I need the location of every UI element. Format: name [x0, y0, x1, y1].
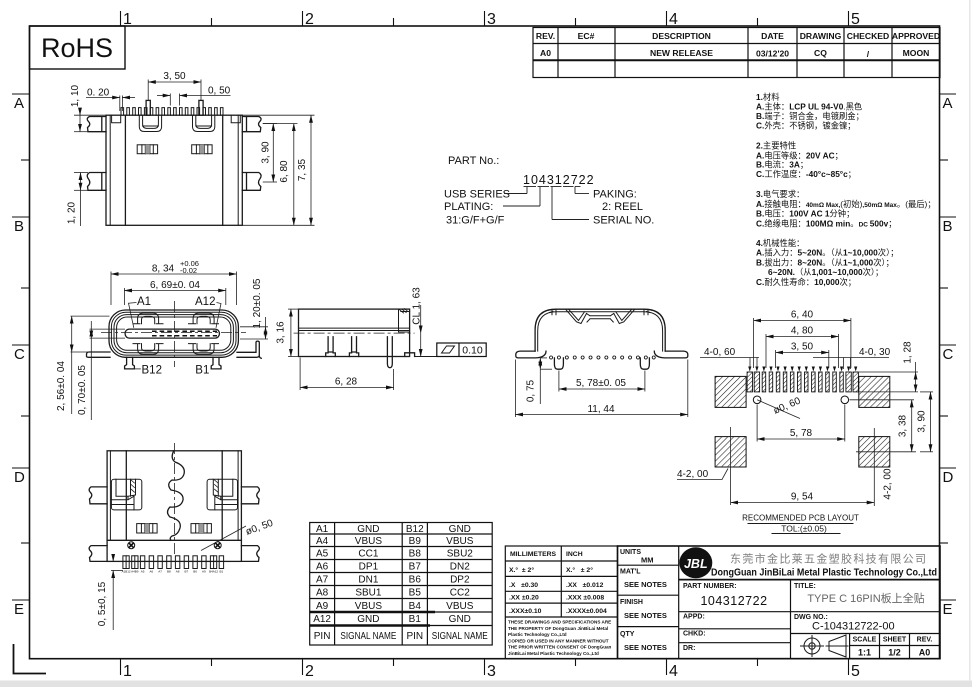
zone numbers top	[123, 11, 860, 28]
svg-text:COPIED OR USED IN ANY MANNER W: COPIED OR USED IN ANY MANNER WITHOUT	[508, 638, 609, 643]
svg-text:B12: B12	[406, 524, 424, 535]
top view vent slot left	[137, 145, 157, 154]
svg-text:.XXX ±0.008: .XXX ±0.008	[566, 595, 604, 602]
revision table text	[536, 31, 940, 59]
pad arrows top	[748, 367, 857, 372]
svg-text:REV.: REV.	[536, 31, 555, 41]
svg-text:1.材料: 1.材料	[756, 92, 780, 102]
svg-text:A7: A7	[158, 570, 162, 574]
corner crop mark bottom-left	[14, 644, 47, 674]
dim 6.80 right	[242, 124, 297, 226]
dim 3.16	[288, 309, 299, 356]
locating holes 0.60	[753, 396, 761, 404]
svg-text:A6: A6	[149, 570, 153, 574]
svg-text:THE PROPERTY OF DongGuan JinBi: THE PROPERTY OF DongGuan JinBiLai Metal	[508, 626, 608, 631]
svg-text:VBUS: VBUS	[446, 536, 474, 547]
front view shell capsule outlines	[109, 310, 238, 357]
part number legend	[444, 155, 654, 227]
svg-text:TYPE C 16PIN板上全贴: TYPE C 16PIN板上全贴	[807, 591, 924, 605]
svg-text:3, 90: 3, 90	[261, 141, 272, 164]
top view solder tab upper-left	[87, 117, 106, 132]
svg-text:C.工作温度：-40°c~85°c；: C.工作温度：-40°c~85°c；	[756, 169, 856, 179]
dim 2.56 left	[71, 316, 111, 414]
svg-text:东莞市金比莱五金塑胶科技有限公司: 东莞市金比莱五金塑胶科技有限公司	[730, 552, 926, 566]
svg-text:GND: GND	[449, 524, 471, 535]
svg-text:GND: GND	[357, 614, 379, 625]
svg-text:C.绝缘电阻：100MΩ min。DC 500v；: C.绝缘电阻：100MΩ min。DC 500v；	[756, 218, 897, 228]
svg-text:B6: B6	[193, 570, 197, 574]
legs	[326, 337, 336, 357]
svg-text:E: E	[943, 601, 953, 618]
top view shell body	[106, 115, 242, 225]
center line	[294, 332, 415, 334]
svg-text:6, 69±0. 04: 6, 69±0. 04	[150, 280, 200, 291]
svg-text:GND: GND	[357, 524, 379, 535]
corner pads 2.00 squares	[715, 376, 746, 407]
svg-text:A5: A5	[141, 570, 145, 574]
svg-text:2: REEL: 2: REEL	[602, 201, 643, 213]
top view vent slot right	[192, 145, 212, 154]
right wing	[237, 341, 261, 358]
part number leader lines	[503, 187, 589, 220]
svg-text:SEE NOTES: SEE NOTES	[624, 643, 667, 652]
svg-text:1, 10: 1, 10	[70, 84, 81, 107]
side view body	[299, 309, 410, 356]
technical notes (Chinese)	[756, 92, 936, 287]
svg-text:B.电压：100V AC 1分钟；: B.电压：100V AC 1分钟；	[756, 209, 854, 219]
center break squiggle	[168, 451, 185, 541]
svg-text:QTY: QTY	[620, 631, 635, 638]
svg-text:5: 5	[851, 663, 860, 680]
svg-text:1: 1	[123, 663, 132, 680]
latch contact upper-left	[133, 313, 163, 324]
right wing	[654, 351, 688, 358]
svg-text:THESE DRAWINGS AND SPECIFICATI: THESE DRAWINGS AND SPECIFICATIONS ARE	[508, 620, 611, 625]
svg-text:EC#: EC#	[578, 31, 595, 41]
EMI tab fold right	[399, 309, 410, 332]
tolerance table	[505, 546, 617, 659]
svg-text:D: D	[943, 469, 954, 486]
svg-text:104312722: 104312722	[523, 173, 595, 187]
svg-text:5, 78: 5, 78	[790, 428, 813, 439]
svg-text:DongGuan JinBiLai Metal Plasti: DongGuan JinBiLai Metal Plastic Technolo…	[711, 567, 937, 579]
svg-text:A9: A9	[316, 601, 329, 612]
svg-text:INCH: INCH	[566, 551, 583, 558]
svg-text:2: 2	[305, 11, 314, 28]
svg-text:6, 40: 6, 40	[791, 310, 814, 321]
svg-text:DR:: DR:	[683, 645, 695, 652]
svg-text:1, 20±0. 05: 1, 20±0. 05	[252, 278, 263, 328]
svg-text:B7: B7	[409, 562, 422, 573]
svg-text:USB SERIES: USB SERIES	[444, 189, 510, 201]
svg-text:RECOMMENDED PCB LAYOUT: RECOMMENDED PCB LAYOUT	[742, 514, 859, 523]
dim 6.40	[754, 318, 851, 368]
top view solder tab lower-right	[242, 173, 261, 191]
top view retention clip left	[139, 115, 161, 131]
dim 7.35 right	[242, 115, 314, 225]
svg-text:X.° ± 2°: X.° ± 2°	[509, 566, 534, 574]
svg-text:5, 78±0. 05: 5, 78±0. 05	[576, 378, 626, 389]
svg-text:5: 5	[851, 11, 860, 28]
svg-text:A0: A0	[540, 48, 551, 58]
top view latch pins	[146, 100, 150, 115]
svg-text:A6: A6	[316, 562, 329, 573]
dim 8.34	[111, 272, 237, 306]
dim 1.28	[858, 362, 918, 392]
svg-text:2: 2	[305, 663, 314, 680]
svg-text:CC1: CC1	[358, 549, 378, 560]
dim 6.28	[300, 358, 394, 391]
left wing	[516, 351, 546, 358]
svg-text:4.机械性能：: 4.机械性能：	[756, 238, 804, 248]
third angle projection symbol	[801, 635, 849, 657]
rear view	[515, 309, 687, 417]
svg-text:A.插入力：5~20N。（从1~10,000次）；: A.插入力：5~20N。（从1~10,000次）；	[756, 248, 899, 258]
svg-text:DP1: DP1	[359, 562, 379, 573]
svg-text:6, 28: 6, 28	[335, 377, 358, 388]
zone ticks top	[121, 11, 849, 26]
gray page bottom strip	[0, 681, 972, 687]
svg-text:SHEET: SHEET	[883, 637, 907, 644]
dim 6.69	[124, 288, 225, 305]
svg-text:0.10: 0.10	[462, 345, 483, 357]
svg-text:B: B	[943, 218, 953, 235]
svg-text:4, 80: 4, 80	[791, 326, 814, 337]
dim 3.38	[850, 400, 917, 452]
svg-text:4: 4	[669, 11, 678, 28]
svg-text:3, 16: 3, 16	[276, 321, 287, 344]
svg-text:A1: A1	[137, 296, 151, 308]
svg-text:B6: B6	[409, 575, 422, 586]
flatness tolerance frame	[437, 343, 486, 357]
svg-text:A9: A9	[202, 570, 206, 574]
svg-text:3, 38: 3, 38	[898, 414, 909, 437]
leader and label dia 0.50	[201, 526, 246, 551]
zone letters right	[943, 95, 954, 618]
clip block right	[207, 479, 237, 510]
svg-text:X.° ± 2°: X.° ± 2°	[566, 566, 593, 574]
svg-text:MM: MM	[641, 556, 654, 565]
svg-text:1, 28: 1, 28	[903, 341, 914, 364]
svg-text:PAKING:: PAKING:	[593, 189, 637, 201]
svg-text:DATE: DATE	[761, 31, 784, 41]
svg-text:0, 50: 0, 50	[208, 86, 231, 97]
svg-text:A.主体：LCP UL 94-V0.黑色: A.主体：LCP UL 94-V0.黑色	[756, 102, 862, 112]
svg-text:A12: A12	[313, 614, 331, 625]
svg-text:GND: GND	[449, 614, 471, 625]
top view shell notches	[112, 115, 241, 123]
dim 5.78	[757, 405, 845, 442]
company logo JBL	[679, 547, 712, 578]
svg-text:B.电流：3A；: B.电流：3A；	[756, 159, 808, 169]
dim 1.20 right	[240, 317, 268, 339]
svg-text:A: A	[14, 95, 24, 112]
svg-text:1/2: 1/2	[888, 648, 901, 658]
svg-text:B1: B1	[219, 570, 223, 574]
rear legs	[554, 358, 649, 369]
svg-text:C.外壳：不锈钢，镀金镍；: C.外壳：不锈钢，镀金镍；	[756, 121, 856, 131]
top view solder tab upper-right	[242, 117, 261, 132]
svg-text:CHKD:: CHKD:	[683, 631, 706, 638]
front view tongue	[125, 329, 219, 338]
svg-text:A0: A0	[919, 648, 931, 658]
svg-text:1, 20: 1, 20	[67, 201, 78, 224]
svg-text:0, 70±0. 05: 0, 70±0. 05	[77, 365, 88, 415]
small shell tabs on dome	[552, 309, 648, 315]
svg-text:B: B	[14, 218, 24, 235]
svg-text:3.电气要求：: 3.电气要求：	[756, 189, 804, 199]
svg-text:.XX ±0.20: .XX ±0.20	[509, 595, 539, 602]
rivet circles	[128, 542, 135, 549]
svg-text:THE PRIOR WRITTEN CONSENT OF D: THE PRIOR WRITTEN CONSENT OF DongGuan	[508, 645, 612, 650]
leader dia 0.60	[757, 400, 800, 419]
svg-text:SBU1: SBU1	[355, 588, 382, 599]
bottom view body	[107, 451, 241, 562]
svg-text:MAT'L: MAT'L	[620, 569, 641, 576]
svg-text:B4A12: B4A12	[209, 570, 218, 574]
dim 0.20	[86, 96, 135, 112]
zone ticks bottom	[121, 659, 849, 675]
svg-text:DRAWING: DRAWING	[800, 31, 842, 41]
svg-text:SIGNAL NAME: SIGNAL NAME	[432, 631, 488, 642]
svg-text:A1B12: A1B12	[122, 570, 131, 574]
svg-text:104312722: 104312722	[700, 594, 767, 608]
gray page right edge line	[969, 0, 971, 681]
dim 5.78±0.05	[559, 371, 645, 392]
latch contact lower-right	[189, 344, 219, 355]
tongue contact dashes	[152, 330, 217, 332]
dim 0.75	[540, 358, 552, 404]
svg-text:1:1: 1:1	[858, 648, 871, 658]
svg-text:SIGNAL NAME: SIGNAL NAME	[340, 631, 396, 642]
vent slot left	[137, 524, 157, 533]
svg-text:8, 34: 8, 34	[152, 264, 175, 275]
dim 9.54	[731, 427, 875, 506]
svg-text:VBUS: VBUS	[355, 601, 383, 612]
rear view dome shell	[535, 309, 665, 351]
svg-text:A4: A4	[316, 536, 329, 547]
title block	[618, 546, 941, 659]
svg-text:.X ±0.30: .X ±0.30	[509, 582, 538, 589]
vent slot right	[191, 524, 211, 533]
svg-text:CC2: CC2	[450, 588, 470, 599]
svg-text:FINISH: FINISH	[620, 599, 643, 606]
svg-text:0, 75: 0, 75	[526, 379, 537, 402]
latch contact upper-right	[189, 313, 219, 324]
dim 3.50 top	[148, 80, 201, 101]
svg-text:A8: A8	[316, 588, 329, 599]
svg-text:A: A	[943, 95, 953, 112]
svg-text:B.端子：铜合金，电镀刷金；: B.端子：铜合金，电镀刷金；	[756, 111, 864, 121]
revision table	[533, 28, 940, 78]
bottom pins row	[123, 556, 224, 569]
svg-text:APPROVED: APPROVED	[892, 31, 940, 41]
svg-text:A8: A8	[176, 570, 180, 574]
svg-text:B8: B8	[409, 549, 422, 560]
svg-text:SERIAL NO.: SERIAL NO.	[593, 215, 654, 227]
svg-text:DN1: DN1	[358, 575, 378, 586]
svg-text:.XXX±0.10: .XXX±0.10	[509, 608, 542, 615]
pad row	[747, 372, 858, 392]
svg-text:DESCRIPTION: DESCRIPTION	[652, 31, 711, 41]
svg-text:.XX ±0.012: .XX ±0.012	[566, 582, 604, 589]
svg-text:RoHS: RoHS	[41, 33, 113, 63]
svg-text:4-2, 00: 4-2, 00	[677, 469, 709, 480]
svg-text:3, 90: 3, 90	[917, 410, 928, 433]
svg-text:PIN: PIN	[406, 631, 423, 642]
svg-text:PIN: PIN	[314, 631, 331, 642]
svg-text:2, 56±0. 04: 2, 56±0. 04	[56, 361, 67, 411]
svg-text:MOON: MOON	[903, 48, 930, 58]
svg-text:B8: B8	[167, 570, 171, 574]
clip block left	[111, 479, 141, 510]
contact tips row	[550, 356, 656, 359]
zone letters left	[14, 95, 25, 618]
svg-text:31:G/F+G/F: 31:G/F+G/F	[446, 215, 505, 227]
front legs	[125, 357, 221, 369]
dim 0.50	[157, 94, 231, 106]
svg-text:NEW RELEASE: NEW RELEASE	[650, 48, 713, 58]
top view EMI teeth row	[121, 108, 223, 116]
svg-text:SCALE: SCALE	[853, 637, 877, 644]
left wing	[87, 352, 111, 357]
svg-text:B1: B1	[195, 365, 209, 377]
svg-text:VBUS: VBUS	[446, 601, 474, 612]
dim 0.70 left	[90, 321, 126, 420]
svg-text:CHECKED: CHECKED	[847, 31, 890, 41]
dim 1.10 left	[74, 108, 106, 132]
svg-text:DP2: DP2	[450, 575, 470, 586]
svg-text:SEE NOTES: SEE NOTES	[624, 580, 667, 589]
svg-text:7, 35: 7, 35	[297, 158, 308, 181]
latch arms inside dome	[566, 309, 587, 323]
svg-text:-0.02: -0.02	[180, 266, 197, 275]
center line vertical	[173, 443, 175, 555]
right foot pad	[405, 353, 415, 357]
svg-text:03/12'20: 03/12'20	[756, 49, 789, 59]
dim 4.80	[766, 334, 839, 368]
svg-text:4-0, 30: 4-0, 30	[859, 347, 891, 358]
svg-text:VBUS: VBUS	[355, 536, 383, 547]
svg-text:3, 50: 3, 50	[163, 71, 186, 82]
svg-text:6, 80: 6, 80	[279, 160, 290, 183]
svg-text:A1: A1	[316, 524, 329, 535]
dim 3.50	[776, 350, 829, 368]
front view: mating face	[56, 259, 268, 420]
svg-text:4: 4	[669, 663, 678, 680]
svg-text:SBU2: SBU2	[447, 549, 474, 560]
dim 0.5±0.15	[111, 555, 123, 630]
pin assignment table	[310, 523, 493, 646]
svg-text:3: 3	[487, 11, 496, 28]
svg-text:UNITS: UNITS	[620, 549, 641, 556]
horizontal center line	[101, 332, 246, 334]
svg-text:SEE NOTES: SEE NOTES	[624, 611, 667, 620]
svg-text:4-2, 00: 4-2, 00	[883, 468, 894, 500]
svg-text:2.主要特性: 2.主要特性	[756, 141, 796, 151]
vertical center line	[173, 301, 175, 367]
svg-text:CL 1, 63: CL 1, 63	[412, 287, 423, 325]
svg-text:A5: A5	[316, 549, 329, 560]
svg-text:CQ: CQ	[814, 48, 827, 58]
svg-text:0. 20: 0. 20	[87, 88, 110, 99]
svg-text:C: C	[14, 346, 25, 363]
svg-text:JBL: JBL	[684, 557, 708, 571]
svg-text:REV.: REV.	[917, 637, 933, 644]
bottom view	[89, 443, 275, 630]
svg-text:C.耐久性寿命：10,000次；: C.耐久性寿命：10,000次；	[756, 277, 856, 287]
svg-text:B7: B7	[184, 570, 188, 574]
svg-text:B5: B5	[409, 588, 422, 599]
svg-text:A4B9: A4B9	[131, 570, 139, 574]
svg-text:D: D	[14, 469, 25, 486]
svg-text:PART No.:: PART No.:	[448, 155, 499, 167]
svg-text:B1: B1	[409, 614, 422, 625]
dim 11.44	[515, 360, 687, 418]
recommended PCB layout view	[677, 310, 933, 534]
svg-text:B.拔出力：8~20N。（从1~1,000次）；: B.拔出力：8~20N。（从1~1,000次）；	[756, 257, 894, 267]
svg-text:0, 5±0, 15: 0, 5±0, 15	[97, 581, 108, 626]
svg-text:MILLIMETERS: MILLIMETERS	[510, 551, 557, 558]
dim CL 1.63	[420, 305, 422, 357]
svg-text:A12: A12	[195, 296, 215, 308]
svg-text:JinBiLai Metal Plastic Technol: JinBiLai Metal Plastic Technology Co.,Lt…	[508, 651, 599, 656]
svg-text:4-0, 60: 4-0, 60	[704, 347, 736, 358]
dim 3.90	[920, 392, 933, 452]
svg-text:PLATING:: PLATING:	[444, 201, 493, 213]
bottom flanges	[89, 487, 107, 504]
svg-text:11, 44: 11, 44	[587, 404, 614, 415]
svg-text:A.接触电阻：40mΩ Max,(初始),50mΩ Max。: A.接触电阻：40mΩ Max,(初始),50mΩ Max。(最后)；	[756, 199, 936, 209]
svg-text:3: 3	[487, 663, 496, 680]
dim 3.90 right	[263, 124, 277, 183]
side view	[276, 287, 487, 390]
svg-text:A7: A7	[316, 575, 329, 586]
svg-text:E: E	[14, 601, 24, 618]
dome shoulder nicks	[547, 310, 653, 313]
svg-text:B9: B9	[409, 536, 422, 547]
svg-text:B12: B12	[142, 365, 162, 377]
svg-text:3, 50: 3, 50	[791, 342, 814, 353]
svg-text:Plastic Technology Co.,Ltd: Plastic Technology Co.,Ltd	[508, 632, 567, 637]
svg-text:9, 54: 9, 54	[791, 492, 814, 503]
svg-text:PART NUMBER:: PART NUMBER:	[683, 583, 737, 590]
RoHS logo box	[30, 26, 126, 69]
svg-text:DN2: DN2	[450, 562, 470, 573]
latch contact lower-left	[133, 344, 163, 355]
svg-text:C-104312722-00: C-104312722-00	[812, 621, 895, 633]
SMT peg	[387, 337, 392, 368]
zone numbers bottom	[123, 663, 860, 680]
svg-text:TITLE:: TITLE:	[794, 583, 816, 590]
top view: connector seen from above	[67, 71, 315, 226]
svg-text:C: C	[943, 346, 954, 363]
svg-text:6~20N.（从1,001~10,000次）；: 6~20N.（从1,001~10,000次）；	[768, 267, 883, 277]
dim 1.20 left	[74, 173, 88, 227]
svg-text:TOL:(±0.05): TOL:(±0.05)	[781, 524, 827, 534]
svg-text:.XXXX±0.004: .XXXX±0.004	[566, 608, 607, 615]
svg-text:B4: B4	[409, 601, 422, 612]
top view retention clip right	[193, 115, 215, 131]
svg-text:APPD:: APPD:	[683, 614, 705, 621]
top view solder tab lower-left	[87, 173, 106, 191]
